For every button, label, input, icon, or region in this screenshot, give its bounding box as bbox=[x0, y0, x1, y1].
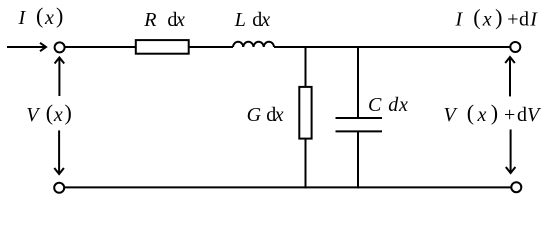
conductance G dx bbox=[299, 87, 311, 139]
wire: C branch lower bbox=[357, 131, 359, 188]
wire: G branch lower bbox=[305, 139, 307, 189]
voltage arrow V(x)+dV up bbox=[505, 57, 515, 96]
wire: top, resistor to inductor bbox=[189, 46, 233, 48]
node: top-left terminal bbox=[55, 42, 65, 52]
node: bottom-left terminal bbox=[54, 183, 64, 193]
node: bottom-right terminal bbox=[511, 182, 521, 192]
svg-text:Ldx: Ldx bbox=[234, 9, 270, 31]
svg-text:V(x): V(x) bbox=[26, 100, 72, 126]
svg-text:Cdx: Cdx bbox=[368, 94, 408, 116]
current arrow into port bbox=[7, 43, 46, 51]
wire: top, inductor to right terminal bbox=[274, 46, 510, 48]
svg-text:I(x): I(x) bbox=[18, 3, 64, 29]
voltage arrow V(x) down bbox=[54, 130, 64, 174]
wire: top, terminal to resistor bbox=[66, 46, 136, 48]
wire: bottom rail bbox=[65, 186, 512, 188]
inductor L dx bbox=[233, 42, 274, 47]
capacitor C dx bbox=[336, 118, 383, 131]
wire: G branch upper bbox=[305, 47, 307, 87]
voltage arrow V(x) up bbox=[55, 58, 65, 97]
node: top-right terminal bbox=[510, 42, 520, 52]
wire: C branch upper bbox=[357, 47, 359, 118]
voltage arrow V(x)+dV down bbox=[506, 130, 516, 174]
resistor R dx bbox=[136, 40, 189, 54]
